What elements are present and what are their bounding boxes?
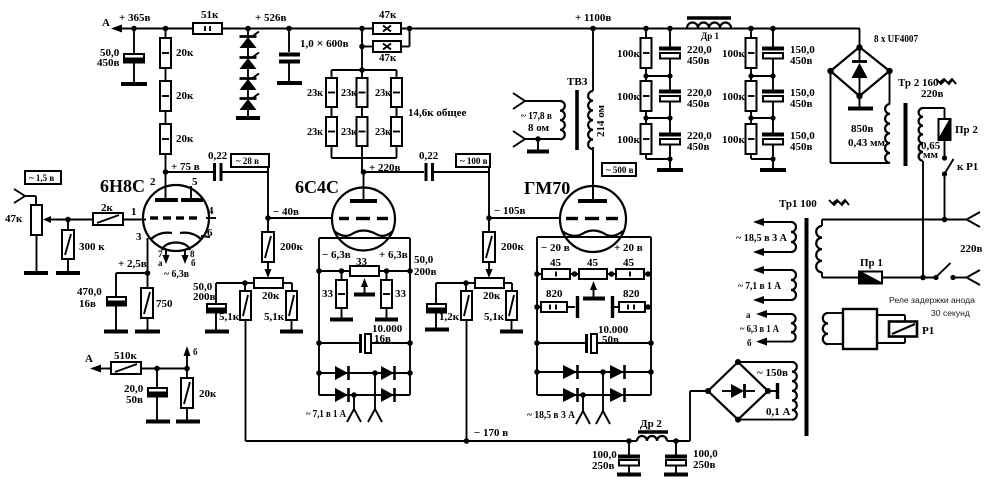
svg-text:5,1к: 5,1к — [484, 311, 505, 323]
wire -40в to grid — [268, 217, 332, 219]
svg-text:23к: 23к — [307, 126, 324, 138]
svg-text:33: 33 — [322, 288, 334, 300]
svg-text:23к: 23к — [307, 87, 324, 99]
wire bridge to -170в rail — [690, 391, 708, 441]
svg-text:16в: 16в — [79, 298, 96, 310]
svg-text:~ 28 в: ~ 28 в — [236, 156, 259, 166]
svg-text:23к: 23к — [341, 87, 358, 99]
wire 45 row — [537, 273, 651, 275]
resistor 510к — [111, 350, 187, 374]
svg-text:мм: мм — [923, 149, 938, 161]
node dot at 20k chain — [163, 26, 169, 32]
resistor 300к — [62, 220, 105, 273]
svg-text:Др 1: Др 1 — [701, 31, 719, 41]
node dot TVZ primary — [590, 26, 596, 32]
svg-text:220в: 220в — [921, 88, 944, 100]
switch к Р1 — [942, 155, 978, 219]
svg-text:200в: 200в — [414, 266, 437, 278]
svg-text:450в: 450в — [687, 98, 710, 110]
svg-text:47к: 47к — [5, 213, 23, 225]
resistor 5,1к to ground ГМ70 — [484, 291, 517, 330]
label Реле задержки анода — [889, 295, 975, 318]
resistor 20к (bottom of chain) — [160, 111, 194, 173]
resistor 33 left — [322, 271, 347, 318]
svg-text:~ 17,8 в: ~ 17,8 в — [521, 110, 552, 122]
svg-text:450в: 450в — [790, 141, 813, 153]
svg-text:850в: 850в — [851, 123, 874, 135]
svg-text:50в: 50в — [126, 394, 143, 406]
wire +220в to cap — [364, 171, 425, 173]
svg-text:20к: 20к — [176, 47, 194, 59]
svg-text:Пр 1: Пр 1 — [860, 257, 883, 269]
node dot diode chain — [245, 26, 251, 32]
svg-text:к Р1: к Р1 — [957, 161, 978, 173]
svg-text:~ 1,5 в: ~ 1,5 в — [29, 173, 54, 183]
svg-text:450в: 450в — [790, 55, 813, 67]
ground for 300k — [56, 271, 80, 275]
capacitor 20,0 50в — [124, 368, 168, 420]
svg-text:8 ом: 8 ом — [528, 122, 550, 134]
resistor 45 right — [616, 257, 644, 279]
ground for 20k — [176, 420, 200, 424]
svg-text:А: А — [102, 17, 110, 29]
node dot +75в — [163, 169, 169, 175]
svg-text:Тр1 100: Тр1 100 — [779, 198, 817, 210]
resistor 51к — [193, 9, 222, 34]
svg-text:20к: 20к — [483, 290, 501, 302]
svg-text:820: 820 — [623, 288, 640, 300]
tube ГМ70 — [524, 147, 626, 252]
svg-text:а: а — [158, 258, 163, 268]
svg-text:100к: 100к — [722, 48, 746, 60]
node dots 33 row — [316, 268, 322, 274]
node dot pot left ГМ70 — [463, 280, 469, 286]
speaker fork upper — [513, 93, 525, 109]
svg-text:~ 7,1 в 1 А: ~ 7,1 в 1 А — [738, 280, 781, 292]
svg-text:45: 45 — [550, 257, 562, 269]
svg-text:450в: 450в — [687, 55, 710, 67]
capacitor 50,0 200в (6С4С) — [193, 281, 245, 330]
svg-text:50,0: 50,0 — [414, 254, 434, 266]
capacitor 1,0 x 600в — [279, 28, 349, 82]
ground for 50uF — [121, 82, 147, 86]
svg-text:100к: 100к — [617, 91, 641, 103]
relay coil Р1 — [823, 309, 905, 349]
node dot -40в — [265, 215, 271, 221]
svg-text:450в: 450в — [97, 57, 120, 69]
ГМ70 filament block frame — [537, 237, 651, 395]
wiper arrow 45 pot — [583, 281, 605, 299]
ТВЗ secondary winding — [524, 101, 565, 139]
node dot at 50uF cap — [131, 26, 137, 32]
Тр1 secondary 150в winding — [738, 362, 797, 420]
inductor Др1 — [687, 18, 731, 41]
transformer Тр2 label — [898, 77, 956, 100]
resistor 750 — [141, 288, 173, 330]
resistor 820 right — [611, 288, 648, 318]
wire +75в to cap — [166, 171, 214, 173]
resistor 100к chain 2 (right group) — [722, 28, 757, 159]
svg-text:45: 45 — [587, 257, 599, 269]
resistor 20к (top of chain) — [160, 28, 194, 68]
resistor network 2x3 23к — [307, 67, 467, 172]
resistor 1,2к to -170в — [439, 283, 472, 441]
svg-text:+ 2,5в: + 2,5в — [118, 258, 147, 270]
svg-text:200к: 200к — [280, 241, 304, 253]
node dot grid junction — [65, 217, 71, 223]
svg-text:ГМ70: ГМ70 — [524, 178, 570, 198]
svg-text:3: 3 — [136, 231, 142, 243]
capacitor 50,0 450в — [97, 28, 145, 83]
svg-text:100к: 100к — [722, 91, 746, 103]
svg-text:Др 2: Др 2 — [640, 418, 662, 430]
svg-text:~ 18,5 в 3 А: ~ 18,5 в 3 А — [736, 232, 787, 244]
svg-text:45: 45 — [623, 257, 635, 269]
ground 33 left — [330, 318, 353, 322]
svg-text:1: 1 — [131, 206, 137, 218]
ground for 50uF ГМ70 — [425, 328, 449, 332]
resistor 2к — [93, 202, 146, 225]
svg-text:20к: 20к — [176, 90, 194, 102]
wire mains upper — [822, 212, 980, 227]
svg-text:750: 750 — [156, 298, 173, 310]
Тр1 primary winding — [816, 220, 859, 278]
svg-text:1,0 × 600в: 1,0 × 600в — [300, 36, 349, 50]
svg-text:820: 820 — [546, 288, 563, 300]
svg-text:2: 2 — [150, 176, 156, 188]
relay contact Р1 — [889, 322, 934, 338]
svg-text:5,1к: 5,1к — [264, 311, 285, 323]
resistor 820 left — [537, 288, 578, 318]
svg-text:470,0: 470,0 — [77, 286, 102, 298]
ground for 5,1k — [280, 330, 303, 334]
svg-text:~ 6,3в: ~ 6,3в — [164, 268, 189, 280]
svg-text:~ 18,5 в 3 А: ~ 18,5 в 3 А — [527, 409, 575, 421]
ground for 47k pot — [24, 271, 48, 275]
svg-text:1,2к: 1,2к — [439, 311, 460, 323]
potentiometer 45 middle — [579, 257, 607, 279]
svg-text:~ 7,1 в 1 А: ~ 7,1 в 1 А — [306, 408, 346, 420]
node A arrow lower left — [85, 353, 111, 373]
resistor 200к (ГМ70 bias) — [483, 218, 525, 278]
svg-text:23к: 23к — [375, 87, 392, 99]
bridge rectifier 8 x UF4007 — [827, 33, 918, 107]
svg-text:0,1 А: 0,1 А — [766, 406, 791, 418]
svg-text:5,1к: 5,1к — [219, 311, 240, 323]
svg-text:~ 6,3 в 1 А: ~ 6,3 в 1 А — [740, 323, 779, 335]
ground left filter group — [657, 168, 683, 172]
node dots filter top — [643, 26, 649, 32]
svg-text:5: 5 — [192, 176, 198, 188]
node dot 20uF — [154, 366, 160, 372]
ТВЗ primary winding 214 ом — [588, 28, 607, 199]
wire equalizing ties left group — [643, 73, 672, 161]
rectifier diodes ГМ70 bottom row — [537, 388, 651, 402]
svg-text:− 170 в: − 170 в — [474, 427, 508, 439]
input jack fork — [14, 189, 36, 205]
svg-text:214 ом: 214 ом — [595, 104, 607, 137]
ТВЗ core — [575, 90, 579, 150]
svg-text:450в: 450в — [790, 98, 813, 110]
node dot Тр2 primary return — [920, 275, 926, 281]
svg-text:100к: 100к — [617, 134, 641, 146]
svg-text:− 6,3в: − 6,3в — [322, 249, 351, 261]
wire 33 row — [319, 270, 410, 272]
AC input forks 6С4С — [347, 373, 382, 422]
resistor 100к chain 1 (left group) — [617, 28, 652, 159]
capacitor 0,22 first — [208, 150, 268, 181]
resistor 47к lower — [373, 41, 401, 64]
potentiometer 47к input — [5, 205, 93, 272]
svg-text:50в: 50в — [602, 334, 619, 346]
capacitor chain 150,0 450в (right group) — [762, 28, 815, 169]
svg-text:6Н8С: 6Н8С — [100, 176, 145, 196]
wire -105в to grid — [489, 217, 560, 219]
capacitor 470,0 16в — [77, 273, 127, 330]
node dots 820 row — [534, 304, 540, 310]
svg-text:6С4С: 6С4С — [295, 177, 339, 197]
svg-text:+ 1100в: + 1100в — [575, 12, 611, 24]
Тр2 core — [904, 103, 908, 166]
capacitor 10.000 50в — [534, 324, 654, 353]
ground 33 right — [375, 318, 398, 322]
node 6Н8С cathode +2,5в — [116, 238, 150, 288]
resistor 5,1к to -170в — [219, 283, 251, 441]
Тр1 secondary 7,1в winding — [738, 266, 796, 304]
svg-text:23к: 23к — [375, 126, 392, 138]
svg-text:23к: 23к — [341, 126, 358, 138]
ground for 1uF — [277, 81, 302, 85]
tube 6Н8С — [100, 172, 216, 280]
svg-text:− 105в: − 105в — [494, 205, 526, 217]
potentiometer 20к (6С4С) — [245, 278, 292, 302]
switch mains — [933, 263, 980, 285]
capacitor plate at bridge output — [768, 383, 778, 399]
svg-text:Пр 2: Пр 2 — [955, 124, 978, 136]
voltage box ~500в — [602, 163, 636, 176]
svg-text:30 секунд: 30 секунд — [931, 308, 970, 318]
capacitor 0,22 second — [419, 150, 489, 181]
ground 100uF left — [617, 473, 641, 477]
svg-text:20к: 20к — [176, 133, 194, 145]
svg-text:20к: 20к — [262, 290, 280, 302]
svg-text:200в: 200в — [193, 291, 216, 303]
svg-text:Р1: Р1 — [922, 325, 934, 337]
rectifier diodes 6С4С bottom row — [319, 388, 410, 402]
node dot speaker ground — [535, 136, 541, 142]
resistor 20к bias — [181, 369, 217, 421]
svg-text:200к: 200к — [501, 241, 525, 253]
Тр1 core — [805, 218, 809, 436]
wire main rail — [222, 28, 860, 30]
ground for 750 — [135, 330, 160, 334]
capacitor 100,0 250в right — [665, 441, 718, 473]
svg-text:+ 365в: + 365в — [119, 12, 151, 24]
Тр1 secondary 6,3в winding — [740, 310, 796, 348]
node dot pot left — [242, 280, 248, 286]
svg-text:20к: 20к — [199, 388, 217, 400]
svg-text:300 к: 300 к — [79, 241, 105, 253]
svg-text:0,43 мм: 0,43 мм — [848, 137, 885, 149]
fuse Пр1 — [859, 257, 936, 284]
voltage box ~100в — [456, 154, 490, 167]
svg-text:250в: 250в — [693, 459, 716, 471]
speaker fork lower — [513, 131, 525, 147]
svg-text:51к: 51к — [201, 9, 219, 21]
svg-text:а: а — [746, 310, 751, 320]
node A terminal arrow — [102, 17, 193, 33]
wire corner to bridge — [859, 29, 861, 49]
svg-text:100к: 100к — [617, 48, 641, 60]
resistor 33 right — [381, 271, 407, 318]
svg-text:+ 20 в: + 20 в — [614, 242, 643, 254]
capacitor 100,0 250в left — [592, 441, 640, 473]
svg-text:~ 100 в: ~ 100 в — [460, 156, 488, 166]
svg-text:4: 4 — [208, 205, 214, 217]
ground for 50uF — [205, 330, 229, 334]
svg-text:б: б — [193, 347, 198, 357]
potentiometer 20к (ГМ70) — [466, 278, 512, 302]
svg-text:47к: 47к — [379, 9, 397, 21]
ground for zener chain — [236, 116, 260, 120]
svg-text:б: б — [747, 338, 752, 348]
wire parallel joins for 47k pair — [359, 26, 412, 70]
fuse Пр2 — [939, 119, 979, 158]
resistor 47к upper — [373, 9, 401, 34]
voltage box ~28в — [231, 154, 269, 167]
Тр2 secondary 850в winding — [831, 71, 891, 163]
node dot 1uF cap — [286, 26, 292, 32]
resistor 20к (middle of chain) — [160, 68, 194, 111]
Тр1 secondary 18,5в winding — [736, 218, 796, 256]
wire corner down to -105в — [488, 167, 490, 218]
svg-text:100к: 100к — [722, 134, 746, 146]
potentiometer 33 — [350, 256, 379, 295]
inductor Др2 — [637, 418, 668, 441]
svg-text:~ 500 в: ~ 500 в — [606, 165, 634, 175]
bridge rectifier 150в — [705, 359, 771, 423]
svg-text:510к: 510к — [114, 350, 138, 362]
node dots 45 row — [534, 271, 540, 277]
wire -170в bus — [246, 438, 691, 444]
ground 100uF right — [664, 473, 688, 477]
AC input forks ГМ70 — [576, 372, 610, 424]
svg-text:+ 526в: + 526в — [255, 12, 287, 24]
svg-text:0,22: 0,22 — [419, 150, 439, 162]
capacitor 10.000 16в — [316, 323, 413, 353]
svg-text:− 40в: − 40в — [273, 206, 299, 218]
svg-text:47к: 47к — [379, 52, 397, 64]
rectifier diodes 6С4С top row — [316, 366, 413, 380]
node dot +220в — [361, 169, 367, 175]
svg-text:ТВЗ: ТВЗ — [567, 76, 588, 88]
ground speaker — [527, 139, 549, 152]
voltage box ~1,5в — [25, 171, 61, 184]
resistor 5,1к to ground — [264, 291, 297, 330]
svg-text:250в: 250в — [592, 460, 615, 472]
ground right filter group — [760, 168, 786, 172]
transformer Тр1 label — [779, 198, 849, 210]
ground for 5,1k ГМ70 — [500, 330, 523, 334]
tube 6С4С — [295, 172, 395, 251]
svg-text:А: А — [85, 353, 93, 365]
svg-text:14,6к общее: 14,6к общее — [408, 107, 467, 119]
node dot -105в — [486, 215, 492, 221]
capacitor 50,0 200в (ГМ70) — [414, 254, 466, 328]
svg-text:33: 33 — [395, 288, 407, 300]
svg-text:8 x UF4007: 8 x UF4007 — [874, 33, 918, 45]
svg-text:б: б — [191, 258, 196, 268]
wire equalizing ties right group — [748, 73, 775, 161]
svg-text:~ 150в: ~ 150в — [757, 367, 788, 379]
svg-text:450в: 450в — [687, 141, 710, 153]
svg-text:220в: 220в — [960, 243, 983, 255]
svg-text:− 20 в: − 20 в — [541, 242, 570, 254]
rectifier diodes ГМ70 top row — [534, 365, 654, 379]
svg-text:0,22: 0,22 — [208, 150, 228, 162]
resistor 200к (6С4С bias) — [262, 218, 304, 278]
svg-text:Реле задержки анода: Реле задержки анода — [889, 295, 975, 305]
svg-text:+ 6,3в: + 6,3в — [379, 249, 408, 261]
ground for 470uF — [104, 330, 128, 334]
capacitor chain 220,0 450в (left group) — [659, 28, 712, 169]
ground for 20uF — [146, 420, 170, 424]
Тр2 primary 220в winding — [919, 108, 945, 277]
zener chain 4 diodes — [240, 28, 260, 117]
ground bridge 850в — [848, 107, 873, 111]
node dot and b arrow — [184, 346, 199, 371]
wire corner down to -40в — [267, 167, 269, 218]
6С4С filament block frame — [319, 238, 410, 395]
resistor 45 left — [542, 257, 570, 279]
